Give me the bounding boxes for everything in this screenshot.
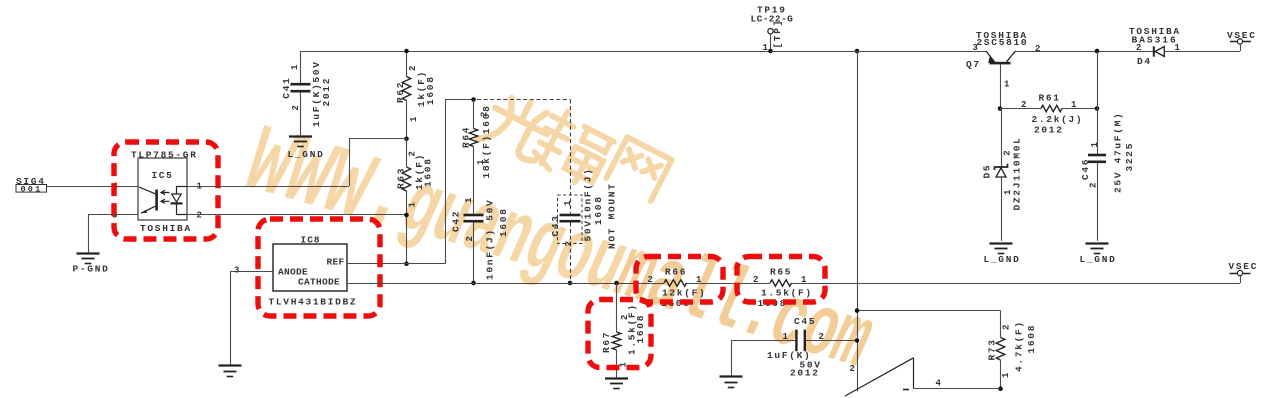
- svg-text:IC5: IC5: [152, 170, 174, 181]
- resistor R65: [770, 280, 792, 286]
- svg-text:2: 2: [850, 364, 857, 374]
- capacitor C42: [464, 214, 484, 217]
- capacitor C41: [300, 51, 302, 83]
- red dashed box R66: [636, 257, 723, 303]
- svg-text:[TP]: [TP]: [772, 19, 783, 49]
- svg-text:2: 2: [1136, 43, 1143, 53]
- node Q7 emitter: [998, 106, 1003, 111]
- svg-text:2: 2: [1002, 323, 1012, 330]
- node C43 bottom: [568, 281, 573, 286]
- svg-text:R65: R65: [770, 267, 792, 278]
- wire IC5 pin3 to P-GND: [88, 214, 138, 216]
- svg-text:D5: D5: [982, 164, 993, 179]
- op-amp IC8 box: [273, 244, 347, 291]
- svg-text:2: 2: [465, 234, 475, 241]
- svg-text:C42: C42: [451, 210, 462, 232]
- dashed net C43: [477, 99, 570, 101]
- node R63 mid: [404, 213, 409, 218]
- wire IC5 pin1 net: [187, 186, 349, 188]
- svg-text:1: 1: [563, 199, 573, 206]
- wire Q7 collector to D4 node: [1016, 51, 1154, 53]
- svg-text:1608: 1608: [498, 207, 509, 237]
- svg-text:R73: R73: [987, 338, 998, 360]
- transistor Q7: [986, 51, 994, 62]
- capacitor C43: [560, 214, 581, 217]
- svg-text:4: 4: [936, 379, 943, 389]
- svg-text:2: 2: [197, 211, 204, 221]
- node R62/R63: [404, 137, 409, 142]
- red dashed box R65: [737, 257, 825, 303]
- node C42 bottom: [471, 281, 476, 286]
- LED inside IC5: [176, 186, 178, 194]
- svg-text:1608: 1608: [425, 75, 436, 105]
- ground L_GND under C41: [289, 135, 312, 137]
- resistor R67: [616, 283, 618, 332]
- node R61 right: [1095, 106, 1100, 111]
- svg-text:2: 2: [1021, 100, 1028, 110]
- svg-text:2: 2: [291, 103, 301, 110]
- svg-text:1: 1: [1001, 371, 1011, 378]
- resistor R61: [1000, 108, 1041, 110]
- node 857 top: [855, 49, 860, 54]
- wire D4 to VSEC: [1164, 51, 1240, 53]
- wire cathode rail: [347, 283, 664, 285]
- capacitor C46: [1097, 51, 1099, 154]
- svg-text:1: 1: [696, 275, 703, 285]
- diode D4: [1153, 46, 1155, 56]
- svg-text:TLVH431BIDBZ: TLVH431BIDBZ: [269, 297, 358, 308]
- node TP19: [768, 49, 773, 54]
- capacitor C45: [731, 340, 796, 342]
- svg-text:TOSHIBA: TOSHIBA: [140, 223, 192, 234]
- svg-text:001: 001: [21, 184, 43, 194]
- watermark: [233, 88, 882, 392]
- svg-text:R64: R64: [461, 126, 472, 148]
- svg-text:1: 1: [1090, 140, 1100, 147]
- wire IC5 pin2 net: [187, 214, 407, 216]
- svg-text:2012: 2012: [1034, 125, 1064, 136]
- svg-text:1: 1: [801, 275, 808, 285]
- ground L_GND under C46: [1086, 242, 1109, 244]
- svg-text:2: 2: [1035, 44, 1042, 54]
- wire ANODE net: [230, 271, 273, 273]
- svg-text:1: 1: [1004, 80, 1011, 90]
- svg-text:D4: D4: [1137, 56, 1152, 67]
- svg-text:DZ2J110M0L: DZ2J110M0L: [1012, 136, 1023, 210]
- svg-text:L_GND: L_GND: [1080, 254, 1117, 265]
- svg-text:1: 1: [783, 332, 790, 342]
- ground P-GND: [77, 252, 100, 254]
- svg-text:TLP785-GR: TLP785-GR: [131, 150, 198, 161]
- svg-text:3: 3: [234, 266, 241, 276]
- node R67 top: [614, 281, 619, 286]
- diode D5: [1001, 109, 1003, 167]
- svg-text:IC8: IC8: [301, 235, 321, 246]
- svg-text:R66: R66: [665, 267, 687, 278]
- svg-text:10nF(J) 50V: 10nF(J) 50V: [485, 199, 496, 280]
- svg-text:VSEC: VSEC: [1227, 30, 1257, 41]
- svg-text:REF: REF: [327, 257, 345, 268]
- red dashed box R67: [588, 300, 651, 368]
- svg-text:1: 1: [409, 115, 419, 122]
- svg-text:18k(F)1608: 18k(F)1608: [481, 104, 492, 178]
- svg-text:1608: 1608: [1026, 324, 1037, 354]
- svg-text:3: 3: [973, 43, 980, 53]
- svg-text:CATHODE: CATHODE: [298, 277, 340, 288]
- transistor inside IC5: [155, 190, 158, 211]
- terminal VSEC top: [1230, 41, 1251, 43]
- svg-text:C46: C46: [1080, 158, 1091, 180]
- light arrows IC5: [161, 190, 170, 194]
- svg-text:1608: 1608: [635, 314, 646, 344]
- wire node857 to R73 top: [857, 310, 1001, 312]
- red dashed box IC8: [258, 219, 380, 316]
- svg-text:2: 2: [753, 275, 760, 285]
- resistor R62: [406, 51, 408, 77]
- node REF tee: [404, 261, 409, 266]
- ground below C45: [720, 375, 743, 377]
- svg-text:P-GND: P-GND: [73, 264, 110, 275]
- wire REF net: [347, 263, 445, 265]
- svg-text:1.5k(F): 1.5k(F): [761, 288, 813, 299]
- svg-text:2SC5810: 2SC5810: [977, 37, 1029, 48]
- svg-text:R63: R63: [396, 167, 407, 189]
- svg-text:12k(F): 12k(F): [662, 288, 706, 299]
- ground L_GND under D5: [990, 242, 1013, 244]
- svg-text:2.2k(J): 2.2k(J): [1032, 114, 1084, 125]
- svg-text:2: 2: [648, 275, 655, 285]
- wire top rail middle: [407, 51, 771, 53]
- node R64 top: [471, 97, 476, 102]
- svg-text:4.7k(F): 4.7k(F): [1014, 320, 1025, 372]
- svg-text:R61: R61: [1039, 92, 1061, 103]
- svg-text:1: 1: [464, 196, 474, 203]
- svg-text:25V 47uF(M): 25V 47uF(M): [1113, 112, 1124, 193]
- node D4 junction: [1095, 49, 1100, 54]
- node R62 top: [404, 49, 409, 54]
- svg-text:C41: C41: [281, 76, 292, 98]
- svg-text:L_GND: L_GND: [984, 254, 1021, 265]
- svg-text:2: 2: [564, 239, 574, 246]
- svg-text:L_GND: L_GND: [288, 149, 325, 160]
- svg-text:2: 2: [1089, 181, 1099, 188]
- svg-text:1: 1: [1071, 100, 1078, 110]
- svg-text:1608: 1608: [423, 157, 434, 187]
- wire top rail right: [771, 51, 987, 53]
- svg-text:Q7: Q7: [966, 59, 981, 70]
- svg-text:1: 1: [408, 200, 418, 207]
- svg-text:50V10nF(J): 50V10nF(J): [583, 167, 594, 241]
- ground below R67: [605, 377, 628, 379]
- ground below IC8 anode: [219, 364, 242, 366]
- node 857 mid: [855, 308, 860, 313]
- red dashed box IC5: [114, 142, 218, 239]
- wire vertical 857: [857, 51, 859, 392]
- resistor R66: [664, 280, 687, 286]
- partial symbol (cut off): [845, 358, 914, 396]
- dashed box around C43: [558, 195, 583, 244]
- svg-text:1608: 1608: [593, 195, 604, 225]
- node R73 bottom: [998, 386, 1003, 391]
- svg-text:R67: R67: [601, 331, 612, 353]
- svg-text:2: 2: [819, 332, 826, 342]
- svg-text:3225: 3225: [1124, 142, 1135, 172]
- svg-text:C43: C43: [550, 214, 561, 236]
- node C45 right: [855, 338, 860, 343]
- resistor R64: [473, 100, 475, 129]
- svg-text:2012: 2012: [790, 368, 820, 379]
- op-amp IC5 outer box: [138, 158, 187, 220]
- svg-text:2012: 2012: [321, 77, 332, 107]
- wire SIG4 to IC5 pin4: [47, 186, 139, 188]
- wire top rail left segment: [301, 51, 407, 53]
- svg-text:NOT MOUNT: NOT MOUNT: [607, 182, 618, 249]
- svg-text:2: 2: [408, 64, 418, 71]
- svg-text:R62: R62: [395, 81, 406, 103]
- resistor R63: [402, 167, 410, 191]
- resistor R73: [1000, 311, 1002, 338]
- svg-text:VSEC: VSEC: [1229, 261, 1259, 272]
- svg-text:C45: C45: [794, 316, 816, 327]
- terminal VSEC right: [1240, 276, 1242, 283]
- svg-text:1: 1: [290, 63, 300, 70]
